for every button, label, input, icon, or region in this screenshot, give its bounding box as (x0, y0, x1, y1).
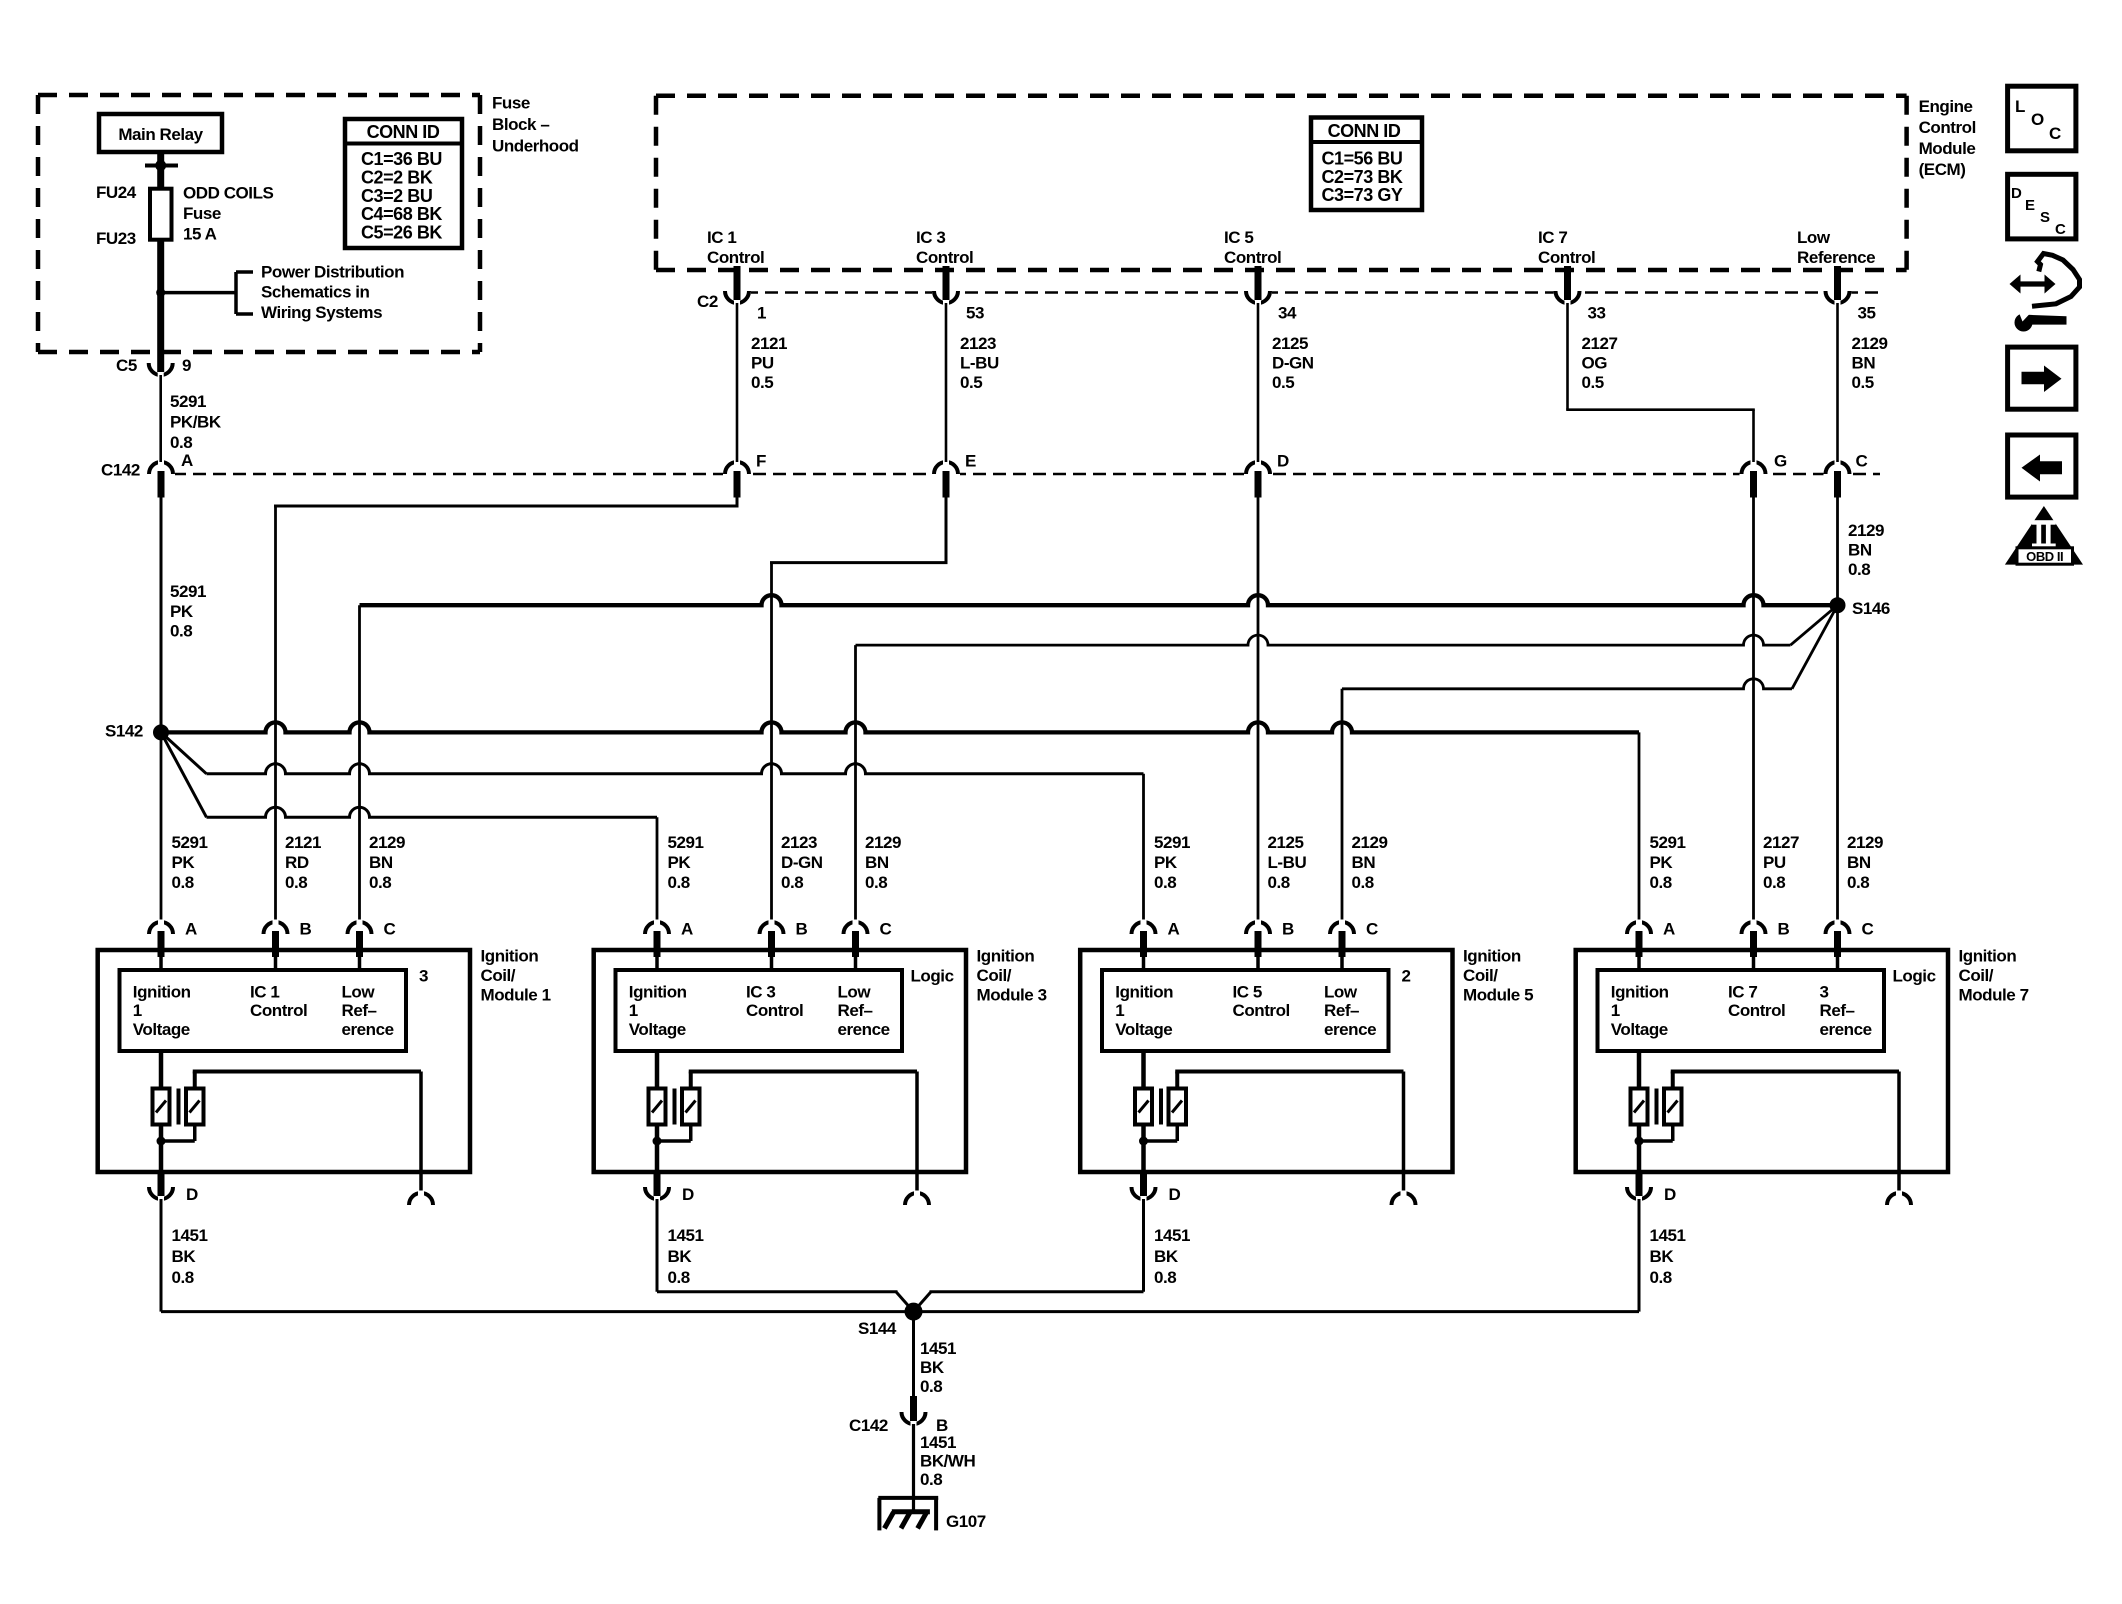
svg-text:53: 53 (966, 304, 984, 323)
svg-text:PK/BK: PK/BK (170, 413, 222, 432)
svg-text:A: A (181, 451, 193, 470)
svg-text:IC 3: IC 3 (746, 982, 775, 1001)
svg-text:C4=68 BK: C4=68 BK (361, 204, 442, 224)
svg-text:IC 1: IC 1 (250, 982, 279, 1001)
svg-text:PK: PK (1650, 853, 1674, 872)
svg-text:L-BU: L-BU (960, 354, 999, 373)
svg-text:Coil/: Coil/ (1463, 966, 1498, 985)
svg-text:5291: 5291 (170, 582, 206, 601)
svg-text:3: 3 (1820, 982, 1829, 1001)
svg-text:Block –: Block – (492, 115, 549, 134)
svg-text:C1=56 BU: C1=56 BU (1322, 149, 1403, 169)
svg-text:Module 1: Module 1 (481, 986, 551, 1005)
svg-text:Coil/: Coil/ (481, 966, 516, 985)
svg-text:E: E (2025, 197, 2035, 214)
svg-text:Low: Low (342, 982, 376, 1001)
svg-text:BK: BK (1650, 1247, 1675, 1266)
svg-text:Low: Low (1797, 228, 1831, 247)
svg-text:Coil/: Coil/ (977, 966, 1012, 985)
svg-text:1: 1 (133, 1001, 142, 1020)
svg-text:1451: 1451 (920, 1339, 956, 1358)
svg-text:S142: S142 (105, 722, 143, 741)
svg-text:PK: PK (1154, 853, 1178, 872)
svg-text:A: A (185, 920, 197, 939)
svg-text:0.8: 0.8 (1848, 560, 1870, 579)
svg-text:OBD II: OBD II (2026, 549, 2063, 564)
svg-text:D: D (1169, 1185, 1181, 1204)
svg-text:0.8: 0.8 (170, 433, 192, 452)
svg-text:C: C (2055, 221, 2066, 238)
svg-text:L: L (2015, 97, 2025, 116)
svg-text:2123: 2123 (781, 833, 817, 852)
svg-text:Engine: Engine (1919, 97, 1973, 116)
svg-text:0.8: 0.8 (1352, 873, 1374, 892)
svg-text:Voltage: Voltage (133, 1020, 190, 1039)
svg-text:erence: erence (342, 1020, 394, 1039)
svg-text:34: 34 (1278, 304, 1297, 323)
svg-text:5291: 5291 (1650, 833, 1686, 852)
svg-text:IC 7: IC 7 (1728, 982, 1757, 1001)
svg-text:5291: 5291 (1154, 833, 1190, 852)
svg-text:2125: 2125 (1272, 334, 1308, 353)
svg-text:D: D (682, 1185, 694, 1204)
svg-text:S146: S146 (1852, 599, 1890, 618)
svg-text:0.8: 0.8 (1650, 873, 1672, 892)
svg-text:0.5: 0.5 (1272, 373, 1294, 392)
svg-text:Control: Control (250, 1001, 307, 1020)
svg-text:Voltage: Voltage (1115, 1020, 1172, 1039)
svg-text:PU: PU (751, 354, 774, 373)
svg-text:C5=26 BK: C5=26 BK (361, 223, 442, 243)
svg-text:L-BU: L-BU (1268, 853, 1307, 872)
svg-text:erence: erence (1324, 1020, 1376, 1039)
svg-text:B: B (796, 920, 808, 939)
svg-text:0.5: 0.5 (751, 373, 773, 392)
svg-text:2121: 2121 (751, 334, 787, 353)
svg-text:S144: S144 (858, 1319, 897, 1338)
svg-text:PU: PU (1763, 853, 1786, 872)
svg-text:B: B (300, 920, 312, 939)
svg-text:1451: 1451 (668, 1226, 704, 1245)
svg-text:D: D (1664, 1185, 1676, 1204)
svg-text:1451: 1451 (172, 1226, 208, 1245)
svg-text:A: A (1663, 920, 1675, 939)
svg-text:BN: BN (865, 853, 889, 872)
svg-text:IC 3: IC 3 (916, 228, 945, 247)
svg-text:D: D (2011, 185, 2022, 202)
svg-text:5291: 5291 (170, 392, 206, 411)
svg-text:Ref–: Ref– (342, 1001, 377, 1020)
svg-text:C2: C2 (697, 292, 718, 311)
svg-text:1: 1 (757, 304, 766, 323)
svg-text:0.8: 0.8 (781, 873, 803, 892)
svg-text:F: F (756, 452, 766, 471)
svg-text:G107: G107 (946, 1512, 986, 1531)
svg-text:Control: Control (1538, 248, 1595, 267)
svg-text:0.8: 0.8 (1154, 873, 1176, 892)
svg-text:D-GN: D-GN (781, 853, 823, 872)
svg-text:FU23: FU23 (96, 229, 136, 248)
svg-text:Wiring Systems: Wiring Systems (261, 303, 382, 322)
svg-text:15 A: 15 A (183, 225, 217, 244)
svg-text:0.8: 0.8 (172, 873, 194, 892)
svg-text:Module 7: Module 7 (1959, 986, 2029, 1005)
svg-text:BN: BN (1847, 853, 1871, 872)
svg-text:C3=73 GY: C3=73 GY (1322, 185, 1403, 205)
svg-text:A: A (1168, 920, 1180, 939)
svg-text:PK: PK (172, 853, 196, 872)
svg-text:(ECM): (ECM) (1919, 160, 1966, 179)
svg-text:0.8: 0.8 (369, 873, 391, 892)
svg-text:3: 3 (419, 967, 428, 986)
svg-text:0.8: 0.8 (170, 622, 192, 641)
svg-text:CONN ID: CONN ID (1328, 121, 1401, 141)
svg-text:BK: BK (172, 1247, 197, 1266)
svg-text:1: 1 (629, 1001, 638, 1020)
svg-text:Reference: Reference (1797, 248, 1875, 267)
svg-text:9: 9 (182, 356, 191, 375)
svg-text:BN: BN (369, 853, 393, 872)
svg-text:IC 5: IC 5 (1233, 982, 1262, 1001)
svg-text:Low: Low (838, 982, 872, 1001)
svg-text:5291: 5291 (668, 833, 704, 852)
svg-text:C: C (2049, 124, 2061, 143)
svg-text:0.8: 0.8 (1650, 1268, 1672, 1287)
svg-text:C3=2 BU: C3=2 BU (361, 186, 432, 206)
svg-text:D-GN: D-GN (1272, 354, 1314, 373)
svg-text:33: 33 (1588, 304, 1606, 323)
svg-text:2121: 2121 (285, 833, 321, 852)
svg-text:C: C (880, 920, 892, 939)
svg-text:2129: 2129 (1848, 521, 1884, 540)
svg-text:OG: OG (1582, 354, 1608, 373)
svg-text:0.5: 0.5 (960, 373, 982, 392)
svg-text:C2=73 BK: C2=73 BK (1322, 167, 1403, 187)
svg-text:C5: C5 (116, 356, 137, 375)
svg-text:B: B (1282, 920, 1294, 939)
svg-text:0.8: 0.8 (920, 1377, 942, 1396)
svg-text:0.8: 0.8 (1268, 873, 1290, 892)
svg-text:Voltage: Voltage (629, 1020, 686, 1039)
svg-text:Control: Control (1224, 248, 1281, 267)
svg-text:C: C (1856, 452, 1868, 471)
svg-text:E: E (965, 452, 976, 471)
svg-text:1451: 1451 (1154, 1226, 1190, 1245)
svg-text:D: D (186, 1185, 198, 1204)
svg-text:RD: RD (285, 853, 309, 872)
svg-text:Control: Control (746, 1001, 803, 1020)
svg-text:1451: 1451 (1650, 1226, 1686, 1245)
svg-text:BN: BN (1848, 541, 1872, 560)
svg-text:IC 7: IC 7 (1538, 228, 1567, 247)
svg-text:Ignition: Ignition (629, 982, 687, 1001)
svg-text:2127: 2127 (1582, 334, 1618, 353)
svg-text:BK: BK (920, 1358, 945, 1377)
svg-text:2129: 2129 (1852, 334, 1888, 353)
svg-text:IC 1: IC 1 (707, 228, 736, 247)
svg-text:Coil/: Coil/ (1959, 966, 1994, 985)
svg-text:BK: BK (668, 1247, 693, 1266)
svg-text:Ignition: Ignition (133, 982, 191, 1001)
svg-text:O: O (2031, 110, 2044, 129)
svg-text:Module 3: Module 3 (977, 986, 1047, 1005)
svg-text:Low: Low (1324, 982, 1358, 1001)
svg-text:BK/WH: BK/WH (920, 1452, 976, 1471)
svg-text:Ignition: Ignition (481, 947, 539, 966)
svg-text:Logic: Logic (911, 967, 954, 986)
svg-text:2127: 2127 (1763, 833, 1799, 852)
svg-text:Voltage: Voltage (1611, 1020, 1668, 1039)
svg-text:Module 5: Module 5 (1463, 986, 1533, 1005)
svg-text:Control: Control (1728, 1001, 1785, 1020)
svg-text:ODD COILS: ODD COILS (183, 184, 274, 203)
svg-text:Logic: Logic (1893, 967, 1936, 986)
svg-text:Underhood: Underhood (492, 137, 579, 156)
svg-text:Main Relay: Main Relay (118, 125, 203, 144)
svg-text:0.5: 0.5 (1852, 373, 1874, 392)
svg-text:Fuse: Fuse (183, 204, 221, 223)
svg-text:C2=2 BK: C2=2 BK (361, 167, 433, 187)
svg-text:1: 1 (1611, 1001, 1620, 1020)
svg-text:FU24: FU24 (96, 183, 137, 202)
svg-text:C142: C142 (101, 461, 140, 480)
svg-text:1: 1 (1115, 1001, 1124, 1020)
svg-text:PK: PK (668, 853, 692, 872)
svg-text:0.8: 0.8 (285, 873, 307, 892)
svg-text:2129: 2129 (1847, 833, 1883, 852)
svg-text:C: C (1366, 920, 1378, 939)
svg-text:Ignition: Ignition (1463, 947, 1521, 966)
svg-text:C: C (384, 920, 396, 939)
svg-text:Ignition: Ignition (1959, 947, 2017, 966)
svg-text:Ignition: Ignition (1115, 982, 1173, 1001)
svg-text:D: D (1277, 452, 1289, 471)
svg-text:Ref–: Ref– (1820, 1001, 1855, 1020)
svg-text:Ignition: Ignition (977, 947, 1035, 966)
svg-text:erence: erence (838, 1020, 890, 1039)
svg-text:erence: erence (1820, 1020, 1872, 1039)
svg-text:0.8: 0.8 (668, 1268, 690, 1287)
svg-text:C142: C142 (849, 1416, 888, 1435)
svg-text:0.8: 0.8 (1763, 873, 1785, 892)
svg-text:2129: 2129 (1352, 833, 1388, 852)
svg-text:2123: 2123 (960, 334, 996, 353)
svg-text:0.8: 0.8 (172, 1268, 194, 1287)
svg-text:S: S (2040, 209, 2050, 226)
svg-text:A: A (681, 920, 693, 939)
svg-text:2129: 2129 (865, 833, 901, 852)
svg-text:BN: BN (1852, 354, 1876, 373)
svg-text:Control: Control (916, 248, 973, 267)
svg-text:1451: 1451 (920, 1433, 956, 1452)
svg-text:0.8: 0.8 (920, 1470, 942, 1489)
svg-text:0.8: 0.8 (668, 873, 690, 892)
svg-text:0.8: 0.8 (1847, 873, 1869, 892)
svg-text:G: G (1774, 452, 1787, 471)
svg-text:Ignition: Ignition (1611, 982, 1669, 1001)
svg-text:Control: Control (707, 248, 764, 267)
svg-text:Module: Module (1919, 139, 1976, 158)
svg-text:IC 5: IC 5 (1224, 228, 1253, 247)
svg-text:PK: PK (170, 602, 194, 621)
svg-text:5291: 5291 (172, 833, 208, 852)
svg-text:BN: BN (1352, 853, 1376, 872)
svg-text:Ref–: Ref– (838, 1001, 873, 1020)
svg-text:2129: 2129 (369, 833, 405, 852)
svg-text:35: 35 (1858, 304, 1876, 323)
svg-text:C1=36 BU: C1=36 BU (361, 149, 442, 169)
svg-text:C: C (1862, 920, 1874, 939)
svg-text:2: 2 (1402, 967, 1411, 986)
svg-text:0.5: 0.5 (1582, 373, 1604, 392)
svg-text:Power Distribution: Power Distribution (261, 263, 404, 282)
svg-text:B: B (1778, 920, 1790, 939)
svg-text:Ref–: Ref– (1324, 1001, 1359, 1020)
svg-text:Schematics in: Schematics in (261, 283, 370, 302)
svg-text:Fuse: Fuse (492, 94, 530, 113)
svg-text:0.8: 0.8 (865, 873, 887, 892)
svg-text:Control: Control (1919, 118, 1976, 137)
svg-text:BK: BK (1154, 1247, 1179, 1266)
svg-text:CONN ID: CONN ID (367, 122, 440, 142)
svg-text:Control: Control (1233, 1001, 1290, 1020)
svg-text:2125: 2125 (1268, 833, 1304, 852)
svg-text:0.8: 0.8 (1154, 1268, 1176, 1287)
